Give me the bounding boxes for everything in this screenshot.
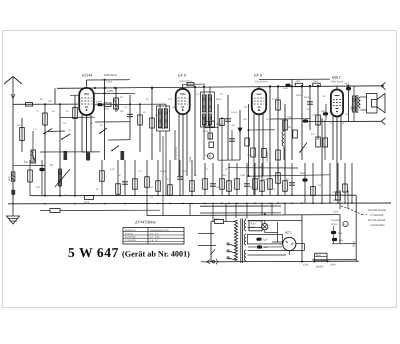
svg-text:50nF: 50nF (280, 118, 286, 121)
svg-text:Drehgangcon mA: Drehgangcon mA (150, 229, 169, 232)
svg-text:50000: 50000 (296, 94, 303, 97)
svg-text:EBL1: EBL1 (332, 76, 341, 80)
svg-text:~125: ~125 (226, 250, 232, 253)
svg-text:ECH4: ECH4 (82, 74, 92, 78)
svg-text:1μF: 1μF (264, 246, 269, 249)
svg-text:50nF: 50nF (216, 98, 222, 101)
svg-text:1MΩ: 1MΩ (313, 80, 318, 83)
svg-text:1MΩ: 1MΩ (189, 157, 192, 162)
svg-text:4V(AZ): 4V(AZ) (316, 266, 324, 269)
svg-text:265V,36mA: 265V,36mA (331, 81, 344, 84)
svg-text:1MΩ: 1MΩ (263, 178, 268, 181)
svg-text:Bereich m: Bereich m (125, 229, 136, 232)
svg-text:~150: ~150 (226, 257, 232, 260)
svg-text:40V,(20V)A: 40V,(20V)A (255, 81, 268, 84)
svg-text:EF 9: EF 9 (254, 74, 263, 78)
svg-text:1MΩ: 1MΩ (296, 80, 301, 83)
svg-text:1M: 1M (258, 166, 261, 169)
svg-text:2nF: 2nF (243, 118, 248, 121)
svg-text:L 700-2000: L 700-2000 (125, 239, 137, 242)
svg-text:2,9 - 5,7: 2,9 - 5,7 (150, 239, 159, 242)
svg-text:100V,6mA: 100V,6mA (104, 73, 117, 77)
svg-text:1MΩ: 1MΩ (240, 174, 245, 177)
svg-text:o Drehstäbe: o Drehstäbe (370, 224, 385, 227)
svg-text:50nF: 50nF (84, 201, 90, 204)
svg-text:1M: 1M (306, 108, 309, 111)
svg-text:ZF 473 kHz: ZF 473 kHz (175, 146, 178, 160)
svg-text:2V: 2V (150, 196, 153, 199)
svg-text:1μF: 1μF (263, 238, 268, 241)
svg-text:2MΩ: 2MΩ (8, 176, 11, 181)
svg-text:0,1: 0,1 (120, 110, 124, 113)
svg-text:8μF: 8μF (338, 232, 343, 235)
svg-text:4,5V: 4,5V (110, 168, 115, 171)
svg-text:130V: 130V (107, 90, 113, 93)
svg-text:6,3V: 6,3V (303, 264, 308, 267)
svg-text:bei LW-Geräte: bei LW-Geräte (368, 219, 386, 222)
svg-text:0,7 - 5,75: 0,7 - 5,75 (150, 236, 160, 239)
svg-text:0,1MΩ: 0,1MΩ (216, 123, 223, 126)
svg-text:E18: E18 (214, 218, 219, 221)
svg-text:10Ω: 10Ω (350, 106, 353, 110)
svg-text:0,7 - 2,4: 0,7 - 2,4 (150, 232, 159, 235)
svg-text:8,5μF: 8,5μF (160, 170, 167, 173)
svg-text:EF 9: EF 9 (178, 74, 187, 78)
svg-text:+15(18)V: +15(18)V (330, 219, 340, 222)
svg-text:50nF: 50nF (304, 96, 310, 99)
svg-text:+2V: +2V (332, 191, 337, 194)
svg-text:20μF: 20μF (300, 172, 306, 175)
svg-text:ZF=473kHz: ZF=473kHz (134, 219, 156, 224)
svg-text:25nF: 25nF (205, 154, 211, 157)
svg-text:50nF: 50nF (172, 106, 178, 109)
svg-text:201 62mA: 201 62mA (266, 151, 269, 162)
svg-text:21kΩ: 21kΩ (106, 81, 112, 84)
svg-text:Ta.m: Ta.m (316, 254, 321, 257)
svg-text:0,1μF: 0,1μF (231, 111, 238, 114)
svg-text:M 200-580: M 200-580 (125, 236, 136, 239)
svg-text:(-)2V: (-)2V (333, 211, 339, 214)
svg-text:~110: ~110 (226, 243, 232, 246)
svg-text:1MΩ: 1MΩ (287, 116, 292, 119)
svg-text:2nF: 2nF (17, 124, 22, 127)
svg-text:6μF: 6μF (345, 82, 350, 85)
svg-text:(Gerät ab Nr. 4001): (Gerät ab Nr. 4001) (122, 250, 190, 259)
svg-text:bei MW-Geräte: bei MW-Geräte (368, 209, 387, 212)
svg-text:82kΩ: 82kΩ (353, 241, 356, 247)
svg-text:2μF: 2μF (182, 170, 187, 173)
svg-text:473: 473 (168, 98, 173, 101)
svg-text:(9,5V): (9,5V) (331, 223, 338, 226)
svg-text:2nF: 2nF (48, 100, 53, 103)
svg-text:1M: 1M (24, 161, 28, 164)
svg-text:220V: 220V (330, 263, 336, 266)
svg-text:5 W 647: 5 W 647 (68, 245, 119, 260)
svg-text:5000: 5000 (321, 110, 327, 113)
svg-text:5Ω: 5Ω (286, 178, 289, 181)
svg-text:AZ 1: AZ 1 (285, 231, 292, 235)
svg-text:45V: 45V (333, 199, 338, 202)
svg-text:8μF: 8μF (339, 239, 344, 242)
svg-text:K 16-50: K 16-50 (125, 232, 133, 235)
svg-text:50Ω: 50Ω (222, 174, 227, 177)
svg-text:0,1MΩ: 0,1MΩ (272, 98, 279, 101)
svg-text:o Preßstoff-: o Preßstoff- (370, 214, 384, 217)
svg-text:2nF: 2nF (36, 186, 41, 189)
svg-text:5000: 5000 (283, 87, 289, 90)
svg-text:1M: 1M (216, 186, 219, 189)
svg-text:4A: 4A (52, 110, 55, 113)
